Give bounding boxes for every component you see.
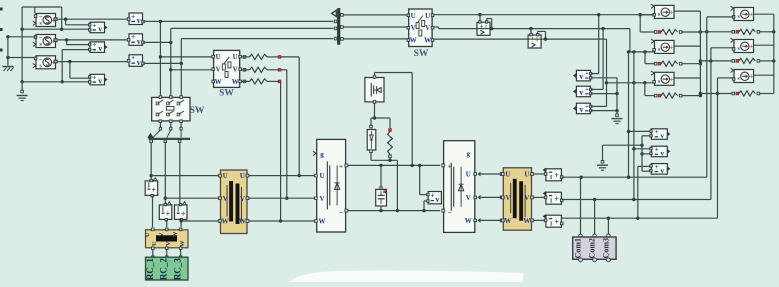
svg-text:V: V [425,24,430,32]
svg-text:+: + [152,186,157,195]
wire B2 to T2 V [480,196,502,198]
svg-text:U: U [151,241,158,246]
svg-text:+: + [554,195,559,204]
svg-text:g: g [320,150,324,158]
wire pp1 taps [479,15,481,22]
breaker row below SW1 [159,123,161,129]
wire R1L tap [639,15,641,32]
wire vmrb3 minus [642,170,651,172]
ground G3 chain [616,78,618,114]
svg-text:RC_2: RC_2 [159,258,169,280]
svg-text:U: U [425,12,430,20]
wire R_V down to V bus [281,69,287,71]
wire V descent to cs2 [629,29,631,52]
svg-text:+: + [670,9,674,17]
svg-text:I: I [162,205,165,213]
svg-text:–: – [338,209,343,217]
controlled current source Is6 [731,68,754,82]
wire cs1 minus [641,14,654,16]
svg-text:v: v [435,195,439,204]
wire DC minus rail [348,210,440,212]
svg-text:V: V [158,232,165,237]
wire vb3 tap [606,39,608,106]
svg-text:W: W [319,218,326,226]
surge arrester D1 [371,117,375,119]
resistor Rs1 [654,31,657,34]
svg-text:W: W [465,217,472,225]
wire T2 to I6 [533,219,545,221]
svg-text:V: V [524,194,529,202]
svg-text:V: V [411,24,416,32]
resistor R_W [243,80,246,83]
svg-text:U: U [144,232,151,237]
resistor R_chop [375,117,391,119]
resistor R_V [243,69,246,72]
svg-text:V: V [240,195,245,203]
wire U main row [151,175,219,177]
svg-text:W: W [424,37,431,45]
svg-text:+: + [670,76,674,84]
svg-text:g: g [467,150,471,158]
svg-text:W: W [179,240,186,247]
RC load block [145,257,188,280]
svg-text:+: + [92,73,96,82]
three-phase block Z1 [144,228,188,249]
wire vmrb1 plus [628,52,630,177]
svg-text:+: + [655,146,659,154]
wire B2 to T2 W [480,219,502,221]
svg-text:+: + [749,73,753,81]
svg-text:V: V [165,241,172,246]
bridge1 ports UVW [315,174,318,177]
wire vmrb2 minus [642,153,651,155]
svg-text:+: + [670,44,674,52]
wire vm1 plus elbow [65,19,67,25]
wire phase W down from bar [179,143,181,205]
current measurement I1 [145,178,158,197]
wire cs5 minus [711,47,734,49]
wire R3L tap [644,83,646,96]
wire feedback loop top-left [22,6,62,8]
svg-text:U: U [319,172,324,180]
wire W ext row [562,217,718,219]
wire T2 to I4 [533,173,545,175]
svg-text:+: + [448,162,452,170]
wire cs6 minus [718,77,734,79]
wire W main row [181,220,219,222]
wire cs right outputs to bus [754,13,774,15]
svg-text:+: + [131,32,135,41]
wire R_U down to U bus [281,56,299,58]
wire V main row [165,197,219,199]
ground G1 [2,66,13,68]
svg-text:+: + [749,43,753,51]
svg-text:+: + [92,40,96,49]
wire source outputs rows [57,18,128,20]
svg-text:Com3: Com3 [601,238,610,258]
current measurement I3 [175,202,188,221]
wire I3 to yellow block [180,220,182,227]
wire source minus to ground bus [8,36,36,38]
svg-text:Com2: Com2 [588,238,597,258]
wire I2 to yellow block [166,220,168,227]
voltage measurement Vn2 [573,86,592,97]
voltage measurement Vn3 [573,103,592,114]
controlled current source Is2 [651,39,674,53]
svg-text:+: + [585,103,589,110]
voltage measurement V1 [89,20,108,33]
svg-text:v: v [137,37,141,46]
wire R_W down to W bus [280,81,282,221]
svg-text:W: W [222,218,229,226]
AC voltage source Ub [33,35,57,49]
svg-text:U: U [216,53,221,61]
wire DC plus rail [348,164,440,166]
chopper IGBT block [365,76,384,103]
svg-text:v: v [137,16,141,25]
wire bus to SW3 U [343,14,407,16]
svg-text:U: U [233,53,238,61]
wire row2 corner to bus [143,41,171,43]
AC voltage source Ua [33,14,57,28]
wire W row over pp2 [529,38,541,40]
voltage measurement Vr2 [127,32,144,46]
svg-text:W: W [410,37,417,45]
bus bar B [337,8,340,45]
wire chopper top to DC plus [374,73,376,77]
resistor Rs2 [654,62,657,65]
svg-text:v: v [98,24,102,33]
svg-text:+: + [339,162,343,170]
ground G2 [21,82,23,91]
svg-text:I: I [147,181,150,189]
wire T1 to bridge1 W [249,220,316,222]
svg-text:U: U [240,172,245,180]
wire bus to SW3 V [343,26,407,28]
svg-text:+: + [585,86,589,93]
svg-text:RC_3: RC_3 [173,258,183,280]
svg-text:v: v [660,131,664,140]
wire phase U down from bar [150,143,152,181]
wire chopper bottom junction [374,103,376,118]
controlled current source Is4 [731,6,754,20]
svg-text:W: W [215,78,222,86]
resistor Rs3 [654,94,657,97]
wire U row right of SW3 [434,14,656,16]
voltage measurement Vo2 [650,146,671,158]
svg-text:+: + [92,20,96,29]
svg-text:V: V [223,195,228,203]
resistor Rs6 [700,93,732,95]
svg-text:V: V [216,66,221,74]
wire ground bus mid [603,144,643,146]
svg-text:SW: SW [414,49,429,59]
wire vb1 tap [598,15,600,74]
voltage measurement Vbc [528,34,541,49]
three-phase breaker SW2 [212,50,242,87]
wire bus to SW3 W [343,38,407,40]
capacitor C1 [380,165,382,187]
wire vm2 plus elbow [66,40,68,45]
current measurement I6 [543,214,563,228]
svg-text:W: W [172,231,179,238]
voltage measurement Vn1 [573,70,592,81]
svg-text:V: V [233,66,238,74]
ground bar [149,138,191,140]
bridge1 port g [313,151,316,155]
svg-text:W: W [504,217,511,225]
AC voltage source Uc [33,56,57,70]
wire T2 to I5 [533,196,545,198]
voltage measurement Vr3 [127,53,144,67]
wire W row right of SW3 [434,38,607,40]
svg-text:+: + [655,163,659,171]
resistor Rs5 [700,60,732,62]
svg-text:v: v [579,105,583,114]
wire vm3 minus [22,81,89,83]
svg-text:W: W [523,217,530,225]
svg-text:–: – [447,209,452,217]
wire vm2 minus elbow [62,49,89,51]
controlled current source Is1 [651,4,674,18]
svg-text:RC_1: RC_1 [145,258,155,280]
svg-text:v: v [137,58,141,67]
svg-text:v: v [660,166,664,175]
controlled current source Is5 [731,38,754,52]
svg-text:+: + [430,190,434,199]
Com goto block [573,237,616,262]
svg-text:+: + [554,171,559,180]
svg-text:+: + [166,210,171,219]
bridge2 DC ports [442,164,445,167]
wire vb2 tap [602,29,604,90]
wire row3 corner to bus [143,62,181,64]
wire vmrb2 plus [633,52,635,200]
universal bridge B1 [317,139,346,232]
svg-text:+: + [554,218,559,227]
resistor Rs4 [700,31,732,33]
wire V ext row [562,199,711,201]
wire W descent to cs3 [607,82,654,84]
controlled current source Is3 [651,71,674,85]
svg-text:W: W [239,218,246,226]
white swoosh bottom [290,271,523,282]
wire B2 to T2 U [480,173,502,175]
svg-text:U: U [411,12,416,20]
svg-text:U: U [466,171,471,179]
wires Z1 to RC block [152,250,154,257]
ground G4 [602,145,604,161]
svg-text:+: + [131,11,135,20]
edge connector marks [0,8,3,11]
wire row1 to bus [143,20,333,22]
svg-text:U: U [223,172,228,180]
wire phase V down from bar [164,143,166,205]
wire V row over pp1 [478,28,491,30]
wire V row right of SW3 [434,26,439,28]
voltage measurement Vo1 [650,128,671,140]
wire phase verticals down to SW1 [159,21,161,95]
svg-text:U: U [524,171,529,179]
wire cs4 minus [707,16,734,18]
voltage measurement Vdc [419,165,421,194]
universal bridge B2 [444,141,475,233]
wire T1 to bridge1 U [249,175,316,177]
voltage measurement V2 [89,40,108,53]
svg-text:v: v [98,77,102,86]
three-phase breaker SW1 [152,96,190,123]
voltage measurement V3 [89,73,108,86]
svg-text:+: + [131,53,135,62]
svg-text:I: I [177,205,180,213]
three-phase breaker SW3 [407,9,434,47]
three-phase transformer T2 [501,168,533,230]
svg-text:+: + [585,70,589,77]
svg-text:W: W [232,78,239,86]
wire T1 to bridge1 V [249,197,316,199]
svg-text:v: v [660,148,664,157]
wire vmrb1 minus [642,135,651,137]
svg-text:V: V [466,194,471,202]
wire R2L tap [644,52,646,64]
svg-text:SW: SW [190,106,205,116]
svg-text:+: + [655,128,659,136]
voltage measurement Vr1 [127,11,144,25]
wires down to Com block [580,177,582,234]
svg-text:+: + [749,11,753,19]
wire cs outputs to bus [675,10,701,12]
resistor R_U [243,56,246,59]
wire pp2 taps [530,29,532,35]
wire taps to SW2 [160,56,212,58]
wires vb right ports to ground bus [591,73,599,75]
svg-text:+: + [181,210,186,219]
voltage measurement Vo3 [650,163,671,175]
current measurement I5 [543,191,563,205]
current measurement I2 [159,202,172,221]
svg-text:U: U [505,171,510,179]
wire vmrb3 plus [637,166,639,218]
svg-text:v: v [579,88,583,97]
svg-text:v: v [579,72,583,81]
wire I1 to transformer block [152,196,154,227]
svg-text:SW: SW [219,89,234,99]
wire chopper bottom to DC minus [371,159,397,161]
three-phase transformer T1 [219,170,249,234]
wire U ext row [562,176,707,178]
current measurement I4 [543,168,563,182]
wire vm3 plus elbow [69,62,71,79]
svg-text:V: V [319,195,324,203]
svg-text:Com1: Com1 [574,238,583,258]
svg-text:V: V [505,194,510,202]
voltage measurement Vab [477,21,490,36]
svg-text:v: v [98,44,102,53]
